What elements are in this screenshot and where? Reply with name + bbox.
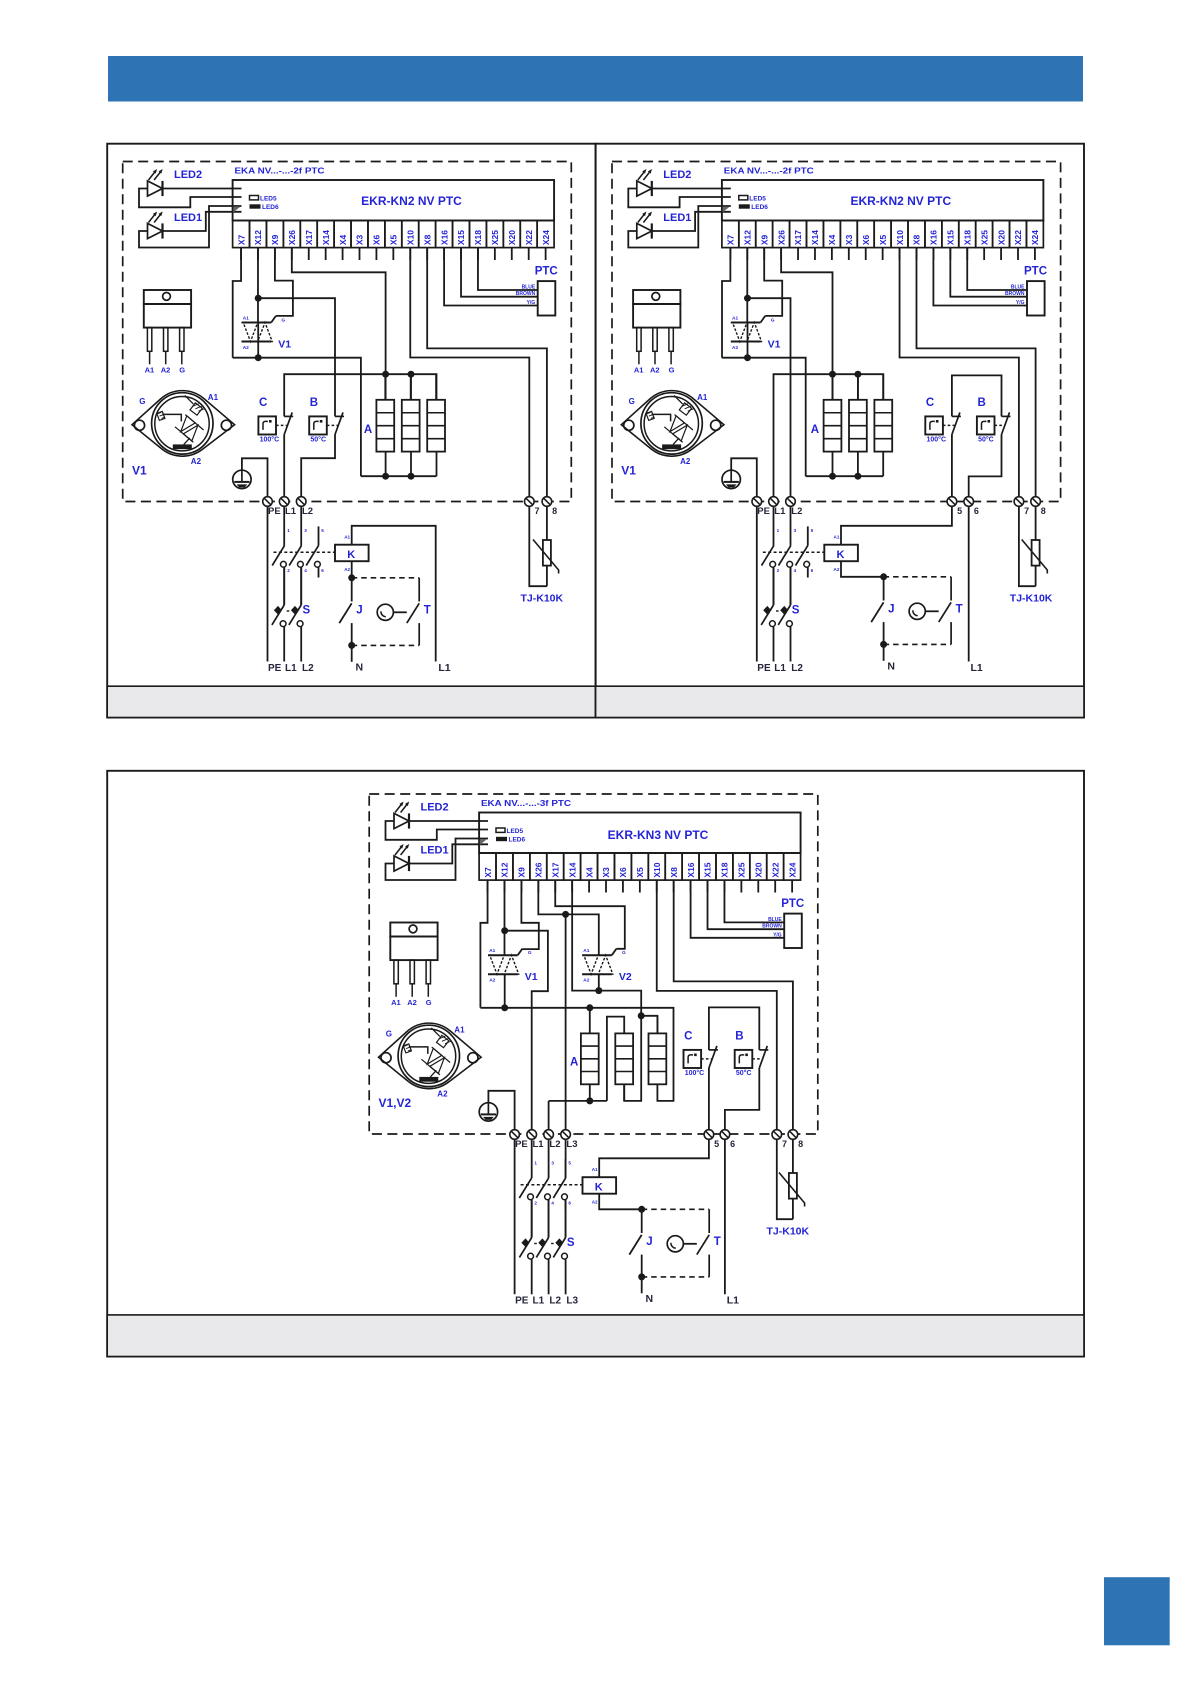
terminal X12 (739, 221, 756, 248)
wire to N (641, 1277, 643, 1293)
svg-text:EKR-KN2 NV PTC: EKR-KN2 NV PTC (850, 194, 951, 208)
contact J (641, 1209, 643, 1233)
terminal X6 (857, 221, 874, 248)
terminal L1 (527, 1130, 537, 1140)
terminal L1 (769, 497, 779, 507)
terminal X3 stub wire (359, 248, 361, 260)
svg-text:X5: X5 (878, 234, 888, 245)
svg-text:A: A (811, 424, 819, 436)
svg-text:L1: L1 (774, 663, 786, 674)
terminal L2 (786, 497, 796, 507)
svg-text:X22: X22 (1013, 230, 1023, 245)
mounting hole left (381, 1053, 391, 1063)
svg-text:X6: X6 (861, 234, 871, 245)
svg-text:A2: A2 (680, 457, 691, 466)
svg-text:X12: X12 (500, 862, 510, 877)
svg-text:EKR-KN2 NV PTC: EKR-KN2 NV PTC (361, 194, 462, 208)
triac V1 center leads (747, 323, 749, 342)
svg-text:6: 6 (811, 568, 814, 573)
thermistor diagonal strike (779, 1173, 805, 1207)
wire L2 to contactor (300, 506, 302, 545)
lamp wire to T (683, 1243, 696, 1245)
svg-text:J: J (646, 1236, 652, 1248)
svg-text:G: G (771, 318, 775, 324)
phase wire to bottom (531, 1259, 533, 1294)
wire to N (351, 645, 353, 661)
svg-text:50°C: 50°C (310, 436, 326, 444)
svg-text:LED6: LED6 (751, 204, 768, 211)
svg-text:X5: X5 (635, 867, 645, 878)
panel 2 caption bar (596, 686, 1084, 717)
svg-text:4: 4 (551, 1201, 554, 1206)
svg-text:LED1: LED1 (174, 212, 202, 224)
V2 A2 center lead (598, 974, 600, 990)
svg-text:A1: A1 (583, 948, 589, 954)
svg-text:8: 8 (1041, 506, 1046, 516)
svg-text:X16: X16 (439, 230, 449, 245)
terminal X26 (283, 221, 300, 248)
indicator LED5 (496, 828, 505, 832)
terminal X10 (648, 853, 665, 880)
contact J (351, 578, 353, 602)
terminal X18 (716, 853, 733, 880)
heater element 3 (649, 1033, 667, 1084)
heater element 1 (581, 1033, 599, 1084)
heater bottom bus (361, 475, 437, 477)
contactor K pole 2 contact (289, 546, 301, 566)
heater bottom bus (806, 475, 884, 477)
svg-text:L3: L3 (566, 1139, 577, 1150)
contact T (407, 603, 419, 623)
thermistor TJ-K10K body (1032, 540, 1040, 566)
terminal X22 stub wire (774, 880, 776, 892)
wire LED2 cathode to box (409, 820, 488, 822)
terminal X6 (614, 853, 631, 880)
svg-text:LED2: LED2 (174, 169, 202, 181)
junction dot A2 (744, 354, 751, 361)
heater bottom stubs (832, 452, 834, 477)
svg-text:L2: L2 (791, 506, 802, 517)
terminal L2 (296, 497, 306, 507)
heater top bus (284, 374, 436, 416)
thermostat B actuator dashed link (995, 424, 1005, 426)
terminal X6 stub wire (622, 880, 624, 892)
contactor K pole 2 contact (536, 1178, 548, 1198)
LED LED1 (148, 223, 163, 238)
connector arrow marker (480, 839, 487, 845)
can outer circle (641, 393, 702, 454)
svg-text:A2: A2 (161, 366, 171, 375)
wire A2 bus (233, 358, 361, 477)
TO-220 leg G (426, 960, 430, 984)
svg-text:50°C: 50°C (736, 1069, 752, 1077)
terminal X25 stub wire (740, 880, 742, 892)
svg-text:X5: X5 (389, 234, 399, 245)
terminal X18 stub wire (477, 248, 479, 260)
svg-text:X8: X8 (669, 867, 679, 878)
svg-text:V1: V1 (768, 339, 781, 351)
terminal X3 (598, 853, 615, 880)
svg-text:G: G (281, 318, 285, 324)
LED LED2 (637, 181, 652, 196)
timer dashed enclosure (352, 577, 420, 579)
mounting hole left (134, 420, 144, 430)
terminal 7 (772, 1130, 782, 1140)
can inner circle (401, 1029, 455, 1083)
connector arrow marker (233, 207, 240, 213)
terminal X5 stub wire (882, 248, 884, 260)
svg-text:B: B (310, 397, 318, 409)
thermistor diagonal strike (533, 540, 559, 574)
svg-text:X22: X22 (524, 230, 534, 245)
svg-text:X18: X18 (962, 230, 972, 245)
indicator LED6 (739, 204, 750, 208)
wire thermostat C to terminal 5 (708, 1068, 710, 1129)
svg-text:EKA NV...-...-3f PTC: EKA NV...-...-3f PTC (481, 799, 571, 808)
wire BLUE to PTC (967, 248, 1027, 290)
phase wire to bottom (565, 1259, 567, 1294)
thermostat C actuator dashed link (701, 1058, 711, 1060)
terminal X22 stub wire (528, 248, 530, 260)
svg-text:X25: X25 (979, 230, 989, 245)
svg-text:LED2: LED2 (421, 802, 449, 814)
indicator lamp (667, 1236, 683, 1252)
svg-text:X20: X20 (507, 230, 517, 245)
switch S pole 3 plunger (555, 1238, 563, 1247)
svg-text:A1: A1 (489, 948, 495, 954)
terminal X5 (631, 853, 648, 880)
svg-text:A1: A1 (732, 316, 738, 322)
wire thermostat B to terminal 6 (969, 435, 1002, 497)
flange-mount triac package V1,V2 (379, 1023, 482, 1089)
terminal X4 stub wire (588, 880, 590, 892)
can inner circle (155, 397, 209, 451)
panel 3 frame (107, 771, 1084, 1357)
terminal L3 (561, 1130, 571, 1140)
svg-text:X26: X26 (534, 862, 544, 877)
terminal X15 stub wire (949, 248, 951, 260)
terminal X9 (756, 221, 773, 248)
terminal X12 stub wire (257, 248, 259, 260)
triac V1 (488, 954, 518, 956)
svg-text:L1: L1 (285, 663, 297, 674)
svg-text:C: C (259, 397, 267, 409)
svg-text:L1: L1 (774, 506, 786, 517)
terminal X18 (959, 221, 976, 248)
thermostat B contact (335, 415, 344, 417)
svg-text:BROWN: BROWN (762, 924, 782, 930)
wire thermostat B to terminal 6 (725, 1068, 759, 1129)
thermistor TJ-K10K body (789, 1173, 797, 1199)
wire LED2 anode loop (139, 189, 242, 208)
svg-text:N: N (356, 662, 364, 674)
heater element 2 (615, 1033, 633, 1084)
wire L1 between contactor and S (283, 567, 285, 605)
die drawing inside can (157, 411, 165, 420)
thermostat B sensor box (735, 1050, 753, 1068)
terminal X10 stub wire (409, 248, 411, 260)
svg-text:A1: A1 (208, 393, 219, 402)
svg-text:X3: X3 (844, 234, 854, 245)
terminal X9 stub wire (520, 880, 522, 892)
terminal PE (510, 1130, 520, 1140)
contactor mechanical dashed link (763, 551, 825, 553)
svg-text:LED6: LED6 (262, 204, 279, 211)
svg-text:LED5: LED5 (260, 195, 277, 202)
wire L1 to contactor (283, 506, 285, 545)
svg-text:A2: A2 (407, 998, 417, 1007)
wire L1 between contactor and S (773, 567, 775, 605)
terminal 7 (1014, 497, 1024, 507)
terminal X15 stub wire (707, 880, 709, 892)
terminal 8 (788, 1130, 798, 1140)
svg-text:X4: X4 (827, 234, 837, 245)
terminal X15 (453, 221, 470, 248)
heater element 2 top stub (410, 374, 412, 400)
svg-text:Y/G: Y/G (527, 300, 536, 306)
contact T (697, 1235, 709, 1255)
wire PE down (267, 506, 269, 661)
terminal X22 (520, 221, 537, 248)
svg-text:PE: PE (515, 1296, 529, 1307)
terminal X4 stub wire (831, 248, 833, 260)
svg-text:X3: X3 (601, 867, 611, 878)
wire Y/G to PTC (691, 880, 785, 938)
earth symbol (233, 470, 251, 488)
svg-text:X8: X8 (422, 234, 432, 245)
thermostat bridge C-B (709, 1007, 759, 1050)
junction dot A1 (744, 295, 751, 302)
contactor coil K (824, 545, 858, 562)
terminal L1 (279, 497, 289, 507)
svg-text:X17: X17 (550, 862, 560, 877)
svg-text:EKR-KN3 NV PTC: EKR-KN3 NV PTC (608, 828, 709, 842)
terminal 5 (704, 1130, 714, 1140)
wire X7 to V1 A2 bus (480, 880, 487, 1008)
timer dashed enclosure (884, 576, 952, 578)
wire L3 drop (565, 914, 567, 1129)
switch S dashed link (534, 1243, 537, 1245)
thermostat C contact (284, 415, 293, 417)
svg-text:X15: X15 (703, 862, 713, 877)
svg-text:T: T (956, 604, 963, 616)
wire LED2 cathode to box (163, 188, 242, 190)
svg-text:A2: A2 (592, 1199, 598, 1204)
wire X26 to V2 A1 (538, 880, 598, 955)
svg-text:X9: X9 (270, 234, 280, 245)
svg-text:A2: A2 (243, 345, 249, 351)
wire X9 to V1 gate (521, 880, 538, 949)
terminal X17 stub wire (797, 248, 799, 260)
svg-text:100°C: 100°C (260, 436, 280, 444)
svg-text:2: 2 (534, 1201, 537, 1206)
can inner circle (644, 397, 698, 451)
terminal X18 (469, 221, 486, 248)
heater element 2 top staple to L2 bus (607, 1017, 624, 1101)
svg-text:PE: PE (268, 506, 281, 517)
terminal X5 (874, 221, 891, 248)
svg-text:V1: V1 (621, 464, 636, 478)
device dashed enclosure (612, 162, 1061, 502)
svg-text:X18: X18 (720, 862, 730, 877)
svg-text:S: S (567, 1237, 575, 1249)
svg-text:J: J (356, 605, 362, 617)
wire LED2 cathode to box (652, 188, 731, 190)
svg-text:N: N (646, 1293, 654, 1305)
terminal X3 (351, 221, 368, 248)
wire BROWN to PTC (950, 248, 1027, 297)
terminal X3 stub wire (605, 880, 607, 892)
svg-text:X12: X12 (253, 230, 263, 245)
lamp wire to T (393, 611, 406, 613)
TO-220 leg A2 (653, 328, 657, 352)
wire PE down (514, 1139, 516, 1294)
terminal X4 stub wire (342, 248, 344, 260)
junction dot heater1 bottom (586, 1097, 593, 1104)
terminal X9 stub wire (274, 248, 276, 260)
svg-text:A1: A1 (243, 316, 249, 322)
svg-text:G: G (426, 998, 432, 1007)
heater bottom-left bus (549, 1100, 607, 1102)
svg-text:PTC: PTC (781, 898, 804, 910)
svg-text:7: 7 (1024, 506, 1029, 516)
LED LED1 (637, 223, 652, 238)
svg-text:Y/G: Y/G (1016, 300, 1025, 306)
svg-text:G: G (139, 397, 145, 406)
svg-text:X8: X8 (912, 234, 922, 245)
PTC sensor box (784, 914, 802, 948)
switch S pole 2 (300, 568, 302, 605)
terminal X18 stub wire (723, 880, 725, 892)
TO-220 package body (633, 304, 680, 328)
switch S pole 2 plunger (780, 606, 788, 615)
svg-text:LED5: LED5 (507, 828, 524, 835)
terminal X8 (908, 221, 925, 248)
wire X17 to V2 gate (555, 880, 625, 949)
wire thermostat C to L1 terminal (283, 435, 285, 497)
terminal X14 (564, 853, 581, 880)
PTC sensor box (1027, 281, 1045, 315)
terminal X10 stub wire (899, 248, 901, 260)
svg-text:L2: L2 (549, 1296, 561, 1307)
switch S pole 1 plunger (274, 606, 282, 615)
wire L2 between contactor and S (300, 567, 302, 605)
terminal X4 (334, 221, 351, 248)
svg-text:8: 8 (552, 506, 557, 516)
sensor wire from terminal 7 (1019, 506, 1036, 586)
svg-text:X15: X15 (456, 230, 466, 245)
terminal X24 stub wire (545, 248, 547, 260)
TO-220 leg G (669, 328, 673, 352)
panel 3 caption bar (107, 1315, 1084, 1357)
indicator LED6 (496, 837, 507, 841)
svg-text:X25: X25 (737, 862, 747, 877)
switch S pole 2 plunger (291, 606, 299, 615)
terminal X10 stub wire (656, 880, 658, 892)
thermostat C contact (709, 1049, 718, 1051)
svg-text:X18: X18 (473, 230, 483, 245)
terminal X8 (665, 853, 682, 880)
PTC sensor box (538, 281, 556, 315)
heater top bus from L1 (774, 374, 884, 497)
wire coil top (841, 506, 952, 544)
terminal X25 stub wire (494, 248, 496, 260)
triac V1 (731, 322, 761, 324)
heater bottom stubs (385, 452, 387, 477)
svg-text:LED1: LED1 (421, 845, 449, 857)
terminal X16 (436, 221, 453, 248)
thermostat B contact (759, 1049, 768, 1051)
wire PE down (756, 506, 758, 661)
terminal X9 stub wire (763, 248, 765, 260)
switch S dashed link (551, 1243, 555, 1245)
terminal X24 (1026, 221, 1043, 248)
svg-text:X20: X20 (996, 230, 1006, 245)
terminal X25 (486, 221, 503, 248)
terminal X24 stub wire (1034, 248, 1036, 260)
terminal 7 (525, 497, 535, 507)
terminal X17 stub wire (554, 880, 556, 892)
svg-text:X26: X26 (287, 230, 297, 245)
wire L2 to contactor (790, 506, 792, 545)
junction dot A1 (255, 295, 262, 302)
svg-text:X24: X24 (1030, 230, 1040, 245)
svg-text:V1,V2: V1,V2 (379, 1096, 412, 1110)
terminal X7 stub wire (729, 248, 731, 260)
svg-text:100°C: 100°C (927, 436, 947, 444)
wire X14 to V2 A2 (572, 880, 641, 1101)
contact J (883, 577, 885, 601)
svg-text:TJ-K10K: TJ-K10K (1010, 593, 1053, 605)
wire earth to PE terminal (488, 1091, 514, 1129)
terminal X5 stub wire (392, 248, 394, 260)
wire BLUE to PTC (724, 880, 784, 922)
svg-text:X10: X10 (405, 230, 415, 245)
terminal X17 (547, 853, 564, 880)
svg-text:A2: A2 (583, 978, 589, 984)
svg-text:100°C: 100°C (685, 1069, 705, 1077)
terminal X7 (233, 221, 250, 248)
terminal X22 (1010, 221, 1027, 248)
svg-text:6: 6 (974, 506, 979, 516)
wire LED2 anode loop (628, 189, 731, 208)
terminal X14 stub wire (814, 248, 816, 260)
svg-text:LED2: LED2 (663, 169, 691, 181)
terminal X14 (317, 221, 334, 248)
terminal X26 (773, 221, 790, 248)
gate lead of V1 (518, 949, 523, 956)
terminal X20 (750, 853, 767, 880)
contactor K pole 2 contact (779, 546, 791, 566)
wire X8 to terminal 8 (674, 880, 793, 1129)
wire terminal 6 to L1 bottom (968, 506, 970, 661)
heater element 1 (824, 400, 842, 452)
sensor wire from terminal 7 (529, 506, 547, 586)
terminal 5 (947, 497, 957, 507)
junction dot A2 (255, 354, 262, 361)
svg-text:A1: A1 (592, 1167, 598, 1172)
svg-text:L2: L2 (302, 506, 313, 517)
wire L1 to contactor (773, 506, 775, 545)
heater element 1 leads (589, 1008, 591, 1034)
svg-text:3: 3 (794, 528, 797, 533)
terminal X6 stub wire (375, 248, 377, 260)
phase wire to bottom (548, 1259, 550, 1294)
terminal X9 (513, 853, 530, 880)
svg-text:J: J (888, 604, 894, 616)
thermostat C actuator dashed link (943, 424, 955, 426)
heater element 3 (874, 400, 892, 452)
